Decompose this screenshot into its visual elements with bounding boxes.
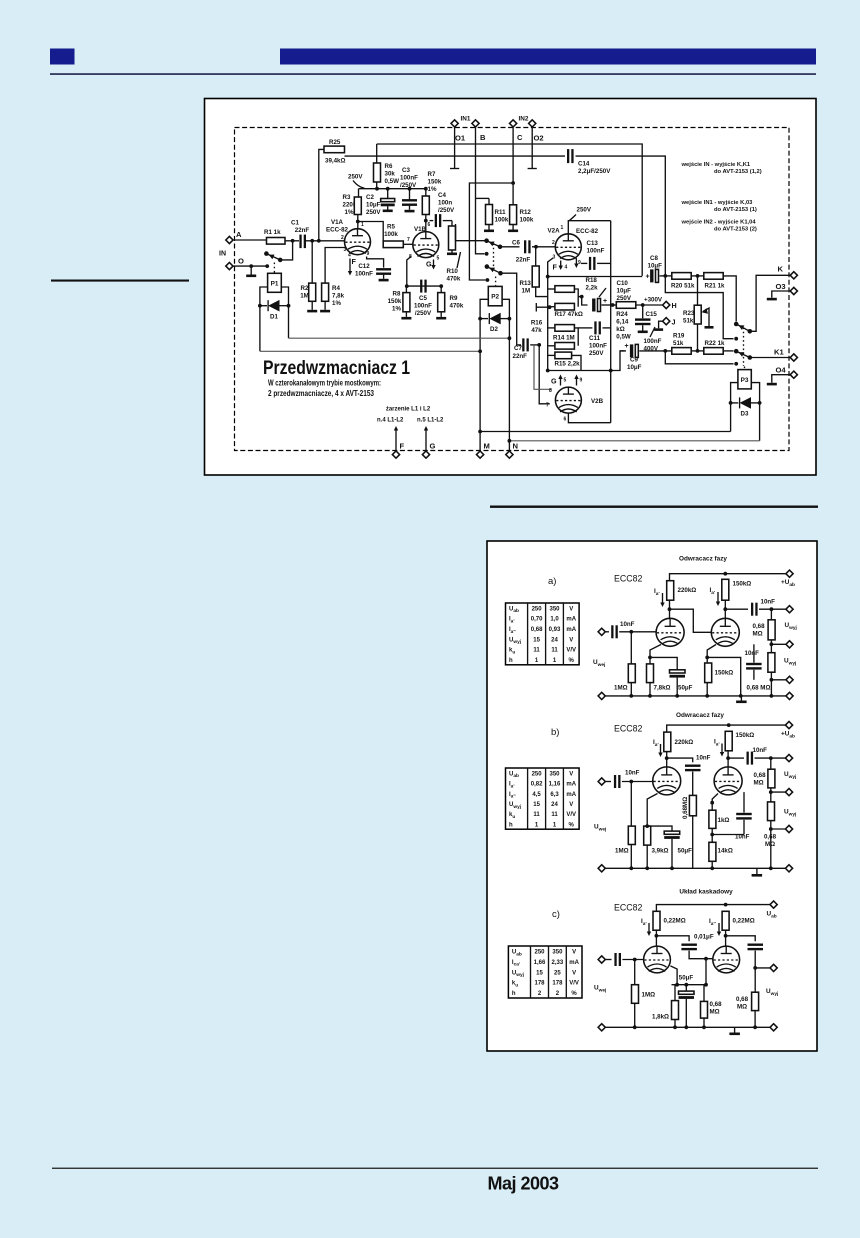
svg-text:4: 4: [565, 265, 568, 271]
node out c: [770, 964, 777, 971]
wire R3 to V1A anode: [357, 215, 359, 229]
capacitor C5: [414, 280, 432, 317]
svg-text:1,16: 1,16: [549, 782, 561, 788]
wire ladder bottom: [548, 351, 625, 371]
wire anode2 to C out b: [728, 757, 744, 759]
switch S3a: [734, 322, 739, 327]
svg-text:1: 1: [361, 222, 364, 228]
capacitor C2: [366, 189, 395, 216]
svg-text:2 przedwzmacniacze, 4 x AVT-21: 2 przedwzmacniacze, 4 x AVT-2153: [268, 388, 374, 398]
node out2 b: [785, 789, 792, 796]
wire R19 R22 node: [691, 350, 704, 352]
wire anode2 to C out a: [725, 608, 748, 610]
node IN1: [451, 116, 479, 128]
svg-text:n.4 L1-L2: n.4 L1-L2: [377, 418, 404, 424]
resistor 1M b: [615, 782, 635, 869]
wire bottom return 1: [480, 431, 730, 433]
svg-text:V2B: V2B: [591, 398, 604, 405]
separator rule above examples: [490, 506, 818, 508]
node rail left b: [598, 865, 605, 872]
svg-text:Odwracacz fazy: Odwracacz fazy: [679, 556, 727, 563]
header left block: [50, 49, 75, 65]
svg-text:żarzenie L1 i L2: żarzenie L1 i L2: [386, 407, 431, 413]
wire cathode2 out a: [707, 657, 741, 696]
node rail left c: [598, 1024, 605, 1031]
svg-text:R19: R19: [673, 333, 685, 340]
capacitor 0.01uF c: [681, 934, 713, 951]
svg-text:11: 11: [551, 648, 558, 654]
svg-text:C3: C3: [402, 167, 410, 174]
svg-text:0,5W: 0,5W: [385, 178, 400, 185]
svg-text:2,33: 2,33: [552, 960, 564, 966]
wire anode2 b: [727, 751, 729, 767]
svg-text:F: F: [400, 442, 405, 451]
svg-text:C12: C12: [358, 263, 370, 270]
svg-text:do AVT-2153 (2): do AVT-2153 (2): [714, 227, 757, 233]
svg-text:100nF: 100nF: [589, 343, 607, 350]
resistor R7: [422, 171, 442, 215]
svg-text:0,70: 0,70: [531, 617, 543, 623]
wire cap to grid2 c: [689, 951, 713, 959]
svg-text:R9: R9: [450, 295, 458, 302]
wire C10 to R24: [602, 304, 617, 306]
wire C9 feed: [620, 350, 626, 352]
ground b: [756, 868, 758, 874]
svg-text:C14: C14: [578, 161, 590, 168]
svg-text:350: 350: [549, 771, 560, 777]
svg-text:250: 250: [534, 950, 545, 956]
svg-text:15: 15: [536, 970, 543, 976]
svg-text:8: 8: [549, 388, 552, 394]
wire R18 node to C10: [578, 297, 587, 305]
svg-text:1M: 1M: [300, 293, 309, 300]
svg-text:mA: mA: [569, 960, 579, 966]
svg-text:0,82: 0,82: [531, 782, 543, 788]
wire cathode2 a: [707, 645, 716, 664]
capacitor 50uF b: [645, 824, 692, 868]
svg-text:220kΩ: 220kΩ: [675, 739, 694, 746]
wire R22 to switch: [723, 350, 733, 352]
svg-text:R17 47kΩ: R17 47kΩ: [555, 311, 583, 318]
svg-text:R15 2,2k: R15 2,2k: [555, 361, 581, 368]
svg-text:10nF: 10nF: [753, 747, 768, 754]
node M: [477, 442, 490, 459]
svg-text:100nF: 100nF: [355, 271, 373, 278]
svg-text:30k: 30k: [385, 171, 396, 178]
main schematic panel frame: [205, 99, 817, 476]
wire bottom return 2: [509, 440, 759, 442]
relay P2: [488, 286, 502, 305]
header bar: [280, 49, 816, 65]
wire V2A pin3 to bus: [548, 258, 553, 277]
resistor 220k b: [664, 732, 693, 752]
svg-text:50μF: 50μF: [679, 975, 694, 982]
svg-text:0,68 MΩ: 0,68 MΩ: [747, 685, 771, 692]
svg-text:6: 6: [428, 222, 431, 228]
svg-text:K: K: [778, 265, 784, 274]
wire input A: [233, 239, 267, 241]
node +Uab b: [785, 722, 792, 729]
svg-text:C1: C1: [291, 220, 299, 227]
resistor 0.68M a2: [768, 653, 790, 696]
resistor R1: [264, 229, 285, 244]
switch S3b: [734, 337, 738, 341]
svg-text:mA: mA: [566, 782, 576, 788]
wire V2B cathode return: [568, 413, 610, 423]
example circuits panel frame: [487, 541, 817, 1051]
wire P3 bracket: [731, 383, 738, 432]
wire 0.68M mid to rail b: [692, 816, 694, 869]
svg-text:Odwracacz fazy: Odwracacz fazy: [676, 712, 724, 719]
svg-text:3,9kΩ: 3,9kΩ: [652, 848, 669, 855]
node B: [480, 133, 486, 142]
svg-text:3: 3: [553, 255, 556, 261]
resistor 14k b: [709, 842, 733, 868]
svg-text:V/V: V/V: [566, 648, 576, 654]
node rail left a: [598, 692, 605, 699]
svg-text:V1A: V1A: [331, 219, 344, 226]
svg-text:%: %: [569, 658, 575, 664]
svg-text:250V: 250V: [577, 207, 592, 214]
svg-text:51k: 51k: [673, 340, 684, 347]
node K: [790, 272, 797, 279]
node out3 b: [785, 825, 792, 832]
table c: [508, 946, 582, 998]
svg-text:C8: C8: [650, 255, 658, 262]
svg-text:do AVT-2153 (1,2): do AVT-2153 (1,2): [714, 169, 762, 175]
node rail right a: [786, 692, 793, 699]
svg-text:5: 5: [564, 378, 567, 384]
svg-text:150kΩ: 150kΩ: [736, 732, 755, 739]
svg-text:C11: C11: [589, 335, 601, 342]
svg-text:1,8kΩ: 1,8kΩ: [652, 1014, 669, 1021]
svg-text:n.5 L1-L2: n.5 L1-L2: [417, 418, 444, 424]
wire P1 bracket: [260, 287, 268, 351]
tube T2 b: [714, 767, 742, 795]
capacitor C12: [355, 263, 391, 281]
svg-text:150k: 150k: [388, 298, 402, 305]
resistor R4: [320, 248, 346, 313]
svg-text:c): c): [552, 909, 560, 920]
resistor R25: [324, 139, 345, 165]
wire anode1 to mid cap b: [667, 758, 693, 762]
svg-text:O3: O3: [776, 282, 786, 291]
svg-text:1%: 1%: [332, 300, 341, 307]
svg-text:mA: mA: [566, 792, 576, 798]
wire anode rail 2: [377, 155, 565, 157]
svg-text:P1: P1: [271, 280, 279, 287]
svg-text:0,93: 0,93: [549, 627, 561, 633]
svg-text:25: 25: [554, 970, 561, 976]
resistor R20: [671, 273, 695, 290]
diode D3: [729, 397, 762, 417]
resistor 1.8k c: [652, 985, 679, 1028]
wire cathode1 a: [650, 645, 661, 664]
svg-text:/250V: /250V: [415, 310, 432, 317]
capacitor C13: [581, 240, 611, 270]
wire K1 switch lower feed: [665, 351, 733, 364]
resistor 0.68M a1: [753, 609, 776, 640]
diode D2: [478, 313, 511, 333]
node O3: [767, 282, 798, 300]
resistor R3: [343, 194, 362, 216]
resistor R23: [683, 276, 701, 351]
node rail right c: [770, 1024, 777, 1031]
svg-text:15: 15: [533, 802, 540, 808]
svg-text:100nF: 100nF: [644, 338, 662, 345]
tube V2A: [548, 228, 599, 260]
footer rule: [52, 1168, 818, 1169]
svg-text:0,68: 0,68: [531, 627, 543, 633]
svg-text:9: 9: [578, 260, 581, 266]
svg-text:N: N: [513, 442, 518, 451]
svg-text:C10: C10: [617, 280, 629, 287]
svg-text:O2: O2: [534, 134, 544, 143]
wire V1B cathode to R8: [407, 257, 411, 287]
svg-text:R10: R10: [447, 268, 459, 275]
svg-text:O1: O1: [455, 134, 466, 143]
node C: [517, 133, 523, 142]
svg-text:5: 5: [437, 256, 440, 262]
resistor 1M a: [614, 632, 635, 696]
wire V2B pin8 feed: [534, 345, 552, 389]
svg-text:22nF: 22nF: [516, 257, 531, 264]
resistor R6: [374, 163, 400, 185]
resistor 220k a: [667, 581, 697, 601]
capacitor out c: [748, 944, 764, 946]
wire C14 to C8 node: [576, 156, 666, 276]
wire R6 stem: [376, 144, 378, 163]
svg-text:MΩ: MΩ: [710, 1009, 720, 1016]
svg-text:V: V: [572, 970, 576, 976]
capacitor in b: [605, 770, 652, 789]
svg-text:wejście IN2 - wyjście K1,04: wejście IN2 - wyjście K1,04: [681, 220, 757, 226]
svg-text:C: C: [517, 133, 523, 142]
svg-text:%: %: [571, 991, 577, 997]
wire O terminal: [233, 265, 266, 267]
svg-text:178: 178: [552, 981, 563, 987]
resistor R19: [672, 333, 691, 355]
svg-text:14kΩ: 14kΩ: [718, 848, 733, 855]
node G bottom: [417, 418, 444, 459]
svg-text:C5: C5: [419, 295, 427, 302]
resistor R15: [548, 352, 581, 370]
svg-text:MΩ: MΩ: [753, 631, 763, 638]
svg-text:47k: 47k: [531, 327, 542, 334]
wire R1 to C1: [285, 240, 299, 242]
wire R3 stem: [358, 189, 360, 197]
capacitor C10: [592, 280, 632, 312]
capacitor 10nF fb b: [712, 792, 752, 840]
capacitor 10nF out2 a: [745, 644, 762, 680]
wire B vertical: [476, 127, 485, 254]
svg-text:D1: D1: [270, 314, 278, 321]
resistor 0.68M b2: [768, 802, 790, 868]
svg-text:+: +: [646, 274, 650, 281]
wire grid bus: [548, 276, 643, 278]
capacitor out 10nF b: [747, 747, 768, 765]
svg-text:0,5W: 0,5W: [616, 334, 631, 341]
svg-text:0,68: 0,68: [710, 1001, 723, 1008]
svg-text:22nF: 22nF: [295, 227, 310, 234]
svg-text:IN2: IN2: [519, 116, 529, 123]
svg-text:Przedwzmacniacz 1: Przedwzmacniacz 1: [263, 357, 410, 379]
node N: [506, 442, 518, 459]
wire supply rail a: [670, 574, 790, 581]
svg-text:10nF: 10nF: [735, 834, 750, 841]
svg-text:C6: C6: [512, 240, 520, 247]
svg-text:F: F: [352, 257, 357, 266]
svg-text:ECC82: ECC82: [614, 574, 642, 584]
svg-text:10μF: 10μF: [617, 288, 632, 295]
resistor 1M c: [632, 960, 656, 1028]
resistor 0.22M c2: [722, 911, 755, 930]
svg-text:250V: 250V: [366, 209, 381, 216]
svg-text:kΩ: kΩ: [616, 326, 624, 333]
relay P3: [738, 370, 751, 389]
node A: [226, 230, 242, 244]
svg-text:100k: 100k: [384, 231, 398, 238]
svg-text:7,8k: 7,8k: [332, 293, 345, 300]
capacitor C4: [430, 192, 456, 227]
wire anode1 c: [655, 930, 657, 946]
svg-text:Układ kaskadowy: Układ kaskadowy: [679, 889, 733, 896]
wire anode1 a: [669, 600, 671, 618]
wire R24 to H: [636, 304, 663, 306]
capacitor C9: [625, 343, 672, 371]
svg-text:0,68MΩ: 0,68MΩ: [682, 797, 689, 819]
svg-text:C15: C15: [646, 311, 658, 318]
switch S4a: [734, 349, 739, 354]
svg-text:7: 7: [407, 237, 410, 243]
svg-text:1kΩ: 1kΩ: [718, 817, 730, 824]
wire C6 to V2A grid: [532, 246, 556, 248]
svg-text:R12: R12: [520, 209, 532, 216]
svg-text:ECC82: ECC82: [614, 724, 642, 734]
left margin rule: [51, 280, 189, 282]
svg-text:R14 1M: R14 1M: [553, 335, 575, 342]
svg-text:R2: R2: [301, 285, 309, 292]
wire P2 bracket: [480, 299, 488, 451]
resistor 0.68M c1: [701, 985, 723, 1028]
svg-text:2,2μF/250V: 2,2μF/250V: [578, 168, 611, 175]
node rail right b: [785, 865, 792, 872]
resistor 150k b: [725, 731, 754, 751]
resistor R9: [436, 286, 464, 319]
svg-text:10nF: 10nF: [761, 599, 776, 606]
wire V1A anode to R5: [358, 222, 383, 245]
wire anode2 a: [724, 600, 726, 618]
svg-text:15: 15: [533, 637, 540, 643]
resistor 150k a2: [705, 663, 734, 696]
wire supply rail b: [667, 725, 789, 732]
svg-text:O4: O4: [776, 366, 787, 375]
label R23 wiper: [703, 308, 709, 326]
wire grid2 down c: [705, 959, 707, 985]
svg-text:250V: 250V: [348, 174, 363, 181]
svg-text:V/V: V/V: [566, 812, 576, 818]
switch S4b: [734, 362, 738, 366]
svg-text:K1: K1: [774, 348, 784, 357]
svg-text:R8: R8: [393, 291, 401, 298]
svg-text:250: 250: [532, 771, 543, 777]
svg-text:9: 9: [367, 251, 370, 257]
svg-text:100nF: 100nF: [587, 248, 605, 255]
svg-text:do AVT-2153 (1): do AVT-2153 (1): [714, 207, 757, 213]
svg-text:ECC-82: ECC-82: [326, 227, 349, 234]
svg-text:50μF: 50μF: [678, 685, 693, 692]
svg-text:100k: 100k: [520, 217, 534, 224]
svg-text:10μF: 10μF: [366, 202, 381, 209]
svg-text:M: M: [484, 442, 490, 451]
wire ground rail b: [602, 867, 789, 869]
capacitor C14: [567, 149, 611, 175]
svg-text:V/V: V/V: [569, 981, 579, 987]
resistor R13: [520, 247, 548, 297]
resistor R11: [476, 198, 509, 232]
node input a: [598, 628, 605, 635]
svg-text:R13: R13: [520, 280, 532, 287]
capacitor C7: [513, 338, 542, 359]
tube T2 a: [711, 618, 739, 646]
svg-text:R5: R5: [387, 224, 395, 231]
wire V1B out to switch: [456, 224, 485, 241]
node out2 a: [786, 641, 793, 648]
svg-text:R18: R18: [586, 277, 598, 284]
wire anode1 b: [666, 752, 668, 767]
svg-text:6,3: 6,3: [550, 792, 559, 798]
svg-text:%: %: [569, 822, 575, 828]
capacitor C8: [646, 255, 672, 282]
svg-text:39,4kΩ: 39,4kΩ: [325, 158, 345, 165]
node F bottom: [377, 418, 405, 459]
resistor 0.22M c1: [653, 911, 686, 930]
svg-text:7: 7: [546, 403, 549, 409]
svg-text:0,22MΩ: 0,22MΩ: [664, 918, 686, 925]
wire supply rail c: [656, 905, 773, 912]
wire cross couple a: [670, 609, 712, 632]
node O2: [534, 134, 544, 143]
svg-text:a): a): [548, 576, 556, 587]
wire V2A anode: [568, 221, 610, 234]
svg-text:1,66: 1,66: [534, 960, 546, 966]
resistor 0.68M c2: [736, 992, 759, 1027]
ground a: [740, 696, 742, 701]
svg-text:350: 350: [552, 950, 563, 956]
svg-text:10nF: 10nF: [620, 621, 635, 628]
svg-text:+300V: +300V: [644, 297, 663, 304]
node out3 a: [786, 676, 793, 683]
wire ground rail c: [602, 1026, 774, 1028]
svg-text:1%: 1%: [428, 186, 437, 193]
svg-text:0,68: 0,68: [753, 623, 766, 630]
svg-text:C9: C9: [630, 357, 638, 364]
capacitor C11: [578, 321, 611, 357]
switch link S1: [273, 263, 275, 273]
switch S2b: [485, 252, 489, 256]
wire C vertical: [512, 127, 514, 205]
wire anode2 to out cap c: [726, 936, 756, 941]
diode D1: [258, 300, 290, 321]
svg-text:R22 1k: R22 1k: [705, 340, 726, 347]
svg-text:0,01μF: 0,01μF: [694, 934, 714, 941]
wire cathode bus V1B: [407, 285, 441, 287]
svg-text:C7: C7: [514, 345, 522, 352]
svg-text:100n: 100n: [438, 200, 452, 207]
svg-text:C4: C4: [438, 192, 446, 199]
svg-text:1MΩ: 1MΩ: [642, 992, 656, 999]
svg-text:0,68: 0,68: [764, 834, 777, 841]
